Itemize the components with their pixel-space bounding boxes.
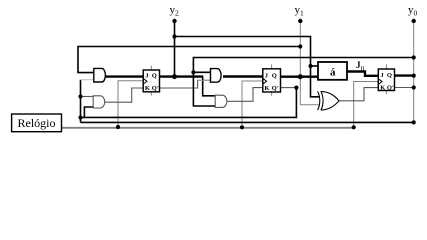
svg-text:0: 0	[414, 9, 418, 18]
svg-text:Q': Q'	[152, 85, 159, 92]
svg-text:Q: Q	[387, 72, 392, 79]
svg-text:K: K	[145, 85, 150, 92]
svg-text:Q': Q'	[387, 85, 394, 92]
svg-text:K: K	[380, 85, 385, 92]
svg-text:0: 0	[361, 66, 365, 73]
svg-text:Q': Q'	[272, 85, 279, 92]
svg-text:1: 1	[300, 9, 304, 18]
svg-text:Q: Q	[272, 72, 277, 79]
svg-text:K: K	[264, 85, 269, 92]
svg-text:Q: Q	[152, 73, 157, 80]
svg-text:Relógio: Relógio	[18, 116, 56, 130]
svg-text:2: 2	[175, 9, 179, 18]
svg-text:á: á	[330, 66, 336, 78]
